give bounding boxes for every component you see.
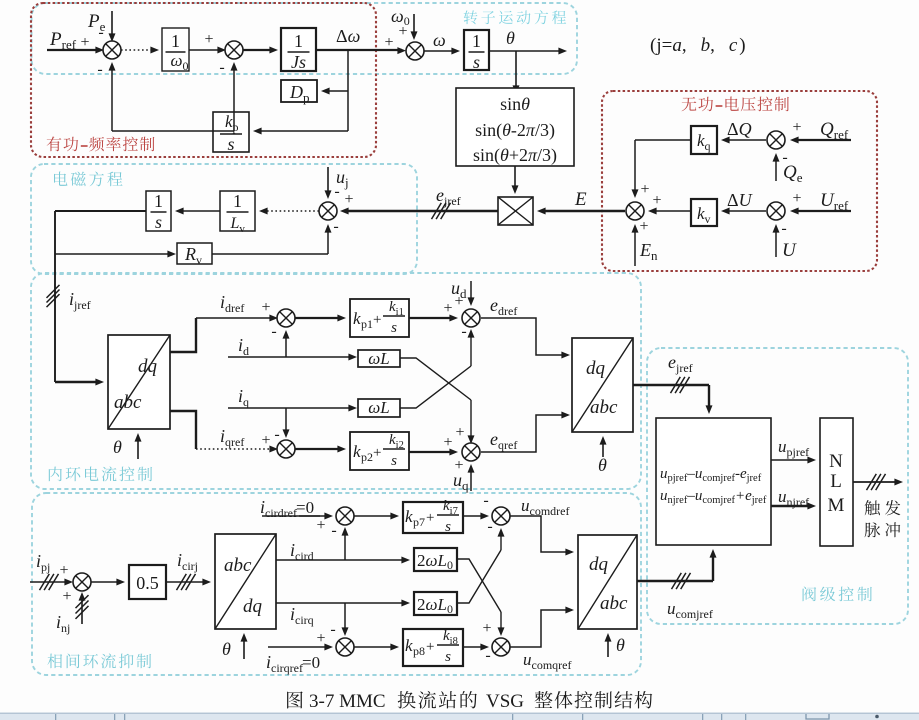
svg-text:-: - bbox=[333, 218, 338, 235]
svg-text:+: + bbox=[373, 445, 381, 461]
svg-text:+: + bbox=[344, 191, 353, 208]
svg-text:+: + bbox=[80, 34, 89, 51]
svg-text:+: + bbox=[640, 181, 649, 198]
svg-text:ΔU: ΔU bbox=[727, 190, 753, 210]
svg-text:+: + bbox=[426, 510, 434, 526]
svg-text:+: + bbox=[261, 299, 270, 316]
svg-text:-: - bbox=[485, 647, 490, 664]
svg-text:abc: abc bbox=[600, 593, 628, 614]
svg-text:s: s bbox=[445, 649, 451, 665]
svg-text:dq: dq bbox=[589, 554, 609, 575]
svg-text:+: + bbox=[443, 434, 452, 451]
svg-text:+: + bbox=[443, 300, 452, 317]
svg-text:ΔQ: ΔQ bbox=[727, 119, 752, 139]
svg-text:dq: dq bbox=[138, 356, 158, 377]
svg-text:N: N bbox=[829, 451, 843, 472]
svg-text:-: - bbox=[271, 323, 276, 340]
svg-text:+: + bbox=[455, 424, 464, 441]
svg-text:-: - bbox=[487, 518, 492, 535]
svg-text:sinθ: sinθ bbox=[500, 94, 530, 114]
svg-text:p1: p1 bbox=[361, 317, 373, 331]
svg-text:-: - bbox=[97, 61, 102, 78]
svg-text:s: s bbox=[445, 519, 451, 535]
svg-text:ω: ω bbox=[433, 30, 446, 50]
svg-text:+: + bbox=[792, 119, 801, 136]
svg-text:=0: =0 bbox=[302, 653, 320, 672]
svg-text:abc: abc bbox=[224, 555, 252, 576]
svg-text:-: - bbox=[219, 59, 224, 76]
svg-text:-: - bbox=[98, 24, 103, 41]
svg-text:1: 1 bbox=[233, 191, 242, 211]
svg-text:p8: p8 bbox=[413, 644, 425, 658]
svg-text:sin(θ-2π/3): sin(θ-2π/3) bbox=[475, 120, 555, 141]
svg-text:U: U bbox=[782, 240, 797, 261]
svg-text:ωL: ωL bbox=[368, 349, 389, 368]
svg-text:+: + bbox=[316, 517, 325, 534]
svg-text:s: s bbox=[473, 52, 480, 72]
svg-text:-: - bbox=[781, 220, 786, 237]
svg-text:+: + bbox=[261, 432, 270, 449]
svg-text:3-7 MMC: 3-7 MMC bbox=[309, 691, 386, 712]
svg-text:+: + bbox=[62, 588, 71, 605]
svg-text:sin(θ+2π/3): sin(θ+2π/3) bbox=[473, 145, 557, 166]
svg-text:+: + bbox=[454, 293, 463, 310]
svg-text:-: - bbox=[330, 621, 335, 638]
svg-text:0.5: 0.5 bbox=[136, 573, 159, 593]
svg-text:θ: θ bbox=[506, 28, 515, 48]
svg-text:θ: θ bbox=[222, 639, 231, 659]
svg-text:k: k bbox=[353, 309, 361, 328]
svg-text:s: s bbox=[391, 320, 397, 336]
svg-text:=0: =0 bbox=[296, 498, 314, 517]
svg-text:-: - bbox=[274, 426, 279, 443]
svg-text:abc: abc bbox=[590, 397, 618, 418]
svg-text:E: E bbox=[574, 189, 587, 210]
svg-text:1: 1 bbox=[294, 31, 303, 51]
svg-text:s: s bbox=[227, 134, 234, 154]
svg-text:M: M bbox=[828, 495, 845, 516]
svg-text:Js: Js bbox=[291, 52, 306, 72]
svg-text:+: + bbox=[426, 639, 434, 655]
svg-text:θ: θ bbox=[598, 455, 607, 475]
svg-text:+: + bbox=[482, 620, 491, 637]
svg-text:ωL: ωL bbox=[368, 398, 389, 417]
svg-text:+: + bbox=[398, 23, 407, 40]
svg-text:s: s bbox=[155, 212, 162, 232]
svg-text:+: + bbox=[59, 562, 68, 579]
svg-text:dq: dq bbox=[243, 596, 263, 617]
svg-text:Δω: Δω bbox=[336, 26, 360, 46]
svg-text:k: k bbox=[405, 507, 413, 526]
svg-text:p7: p7 bbox=[413, 515, 425, 529]
svg-text:s: s bbox=[391, 453, 397, 469]
svg-text:dq: dq bbox=[586, 358, 606, 379]
svg-text:L: L bbox=[830, 471, 842, 492]
svg-text:VSG: VSG bbox=[486, 691, 524, 712]
svg-text:p2: p2 bbox=[361, 450, 373, 464]
svg-text:-: - bbox=[331, 522, 336, 539]
svg-text:θ: θ bbox=[616, 635, 625, 655]
svg-text:1: 1 bbox=[154, 191, 163, 211]
svg-text:k: k bbox=[353, 442, 361, 461]
svg-text:θ: θ bbox=[113, 437, 122, 457]
svg-text:+: + bbox=[652, 192, 661, 209]
svg-text:+: + bbox=[204, 31, 213, 48]
svg-text:1: 1 bbox=[472, 31, 481, 51]
svg-text:-: - bbox=[334, 183, 339, 200]
svg-text:1: 1 bbox=[171, 31, 180, 51]
svg-text:+: + bbox=[373, 312, 381, 328]
svg-text:+: + bbox=[384, 34, 393, 51]
svg-text:-: - bbox=[483, 492, 488, 509]
svg-text:+: + bbox=[639, 218, 648, 235]
svg-text:+: + bbox=[792, 190, 801, 207]
svg-text:abc: abc bbox=[114, 392, 142, 413]
svg-text:-: - bbox=[782, 149, 787, 166]
svg-text:k: k bbox=[405, 636, 413, 655]
svg-text:+: + bbox=[316, 630, 325, 647]
